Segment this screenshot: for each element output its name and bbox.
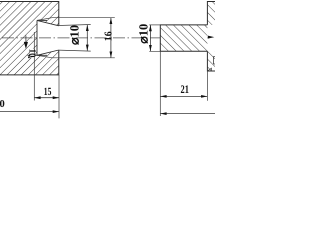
dimension d10 (rod): lower extension line [149, 50, 170, 52]
tapered hole: flat bottom face [36, 20, 38, 55]
dimension 15: right arrowhead [53, 96, 59, 99]
dimension 21: right arrowhead [201, 95, 207, 98]
tapered hole: lower taper wall [37, 50, 59, 55]
svg-text:⌀10: ⌀10 [68, 25, 82, 45]
section hatching of pin/rod (right view) [160, 25, 207, 51]
small inner dimension 10: up arrowhead [28, 53, 31, 58]
dimension d10 (rod): upper arrowhead [149, 25, 152, 31]
dimension d10 (hole mouth): dimension line [86, 25, 88, 51]
svg-text:21: 21 [181, 84, 190, 96]
dimension 16: lower arrowhead [110, 52, 113, 58]
centerline (axis, dash-dot) [2, 37, 208, 39]
dimension 16: dimension line [110, 18, 112, 58]
dimension 15: left arrowhead [34, 96, 40, 99]
dimension 21: left extension line [159, 51, 161, 116]
housing block outline (top edge, right face, bottom edge) [0, 2, 59, 75]
dimension d10 (rod): dimension line [149, 25, 151, 51]
bottom dimension (cut off at right edge): dimension line [160, 113, 215, 115]
svg-text:16: 16 [104, 31, 115, 41]
dimension 16: upper extension line [37, 18, 115, 21]
svg-text:30: 30 [0, 99, 5, 110]
dimension 15: dimension line [34, 97, 59, 99]
dimension d10 (hole mouth): lower arrowhead [86, 45, 89, 51]
clipped mark at right edge [212, 57, 214, 65]
dimension 30 (cut off at left edge): dimension line [0, 111, 59, 113]
dimension 21: left arrowhead [160, 95, 166, 98]
dimension 21: right extension line [206, 71, 208, 101]
small inner dimension 10: halo behind label [30, 49, 36, 58]
dimension 30: right arrowhead [53, 110, 59, 113]
corner wedge at wall bottom [208, 68, 212, 71]
dimension 15: right extension line (face extended) [58, 75, 60, 118]
arrowhead at right end of axis [208, 36, 215, 39]
dimension d10 (hole mouth): lower extension line [59, 50, 91, 51]
section hatching of wall, above hole [207, 2, 215, 25]
dimension 16: upper arrowhead [110, 18, 113, 24]
dimension 21: dimension line [160, 95, 207, 97]
dimension 16: lower extension line [37, 55, 115, 58]
tapered hole: top edge at hole bottom [37, 19, 47, 21]
svg-text:⌀10: ⌀10 [137, 24, 151, 44]
section hatching of wall, below hole [207, 51, 215, 71]
small inner dimension 10: extension line [33, 32, 35, 101]
bottom dimension: left arrowhead [160, 112, 166, 115]
dimension d10 (rod): upper extension line [149, 24, 160, 26]
pin/rod outline [160, 25, 207, 51]
section hatching of housing block (left view) [0, 2, 59, 75]
tapered hole: upper taper wall [37, 20, 59, 25]
svg-text:10: 10 [26, 49, 36, 58]
dimension d10 (hole mouth): upper extension line [59, 25, 91, 26]
tapered hole: lower edge with left extension [28, 54, 48, 56]
small inner dimension 10: down arrowhead [24, 42, 28, 49]
wall outline (face, top edge, bottom edge) [207, 2, 215, 72]
dimension d10 (hole mouth): upper arrowhead [86, 25, 89, 31]
small inner dimension 10: stem above down-arrow [25, 36, 27, 45]
svg-text:15: 15 [44, 86, 52, 98]
dimension d10 (rod): lower arrowhead [149, 45, 152, 51]
